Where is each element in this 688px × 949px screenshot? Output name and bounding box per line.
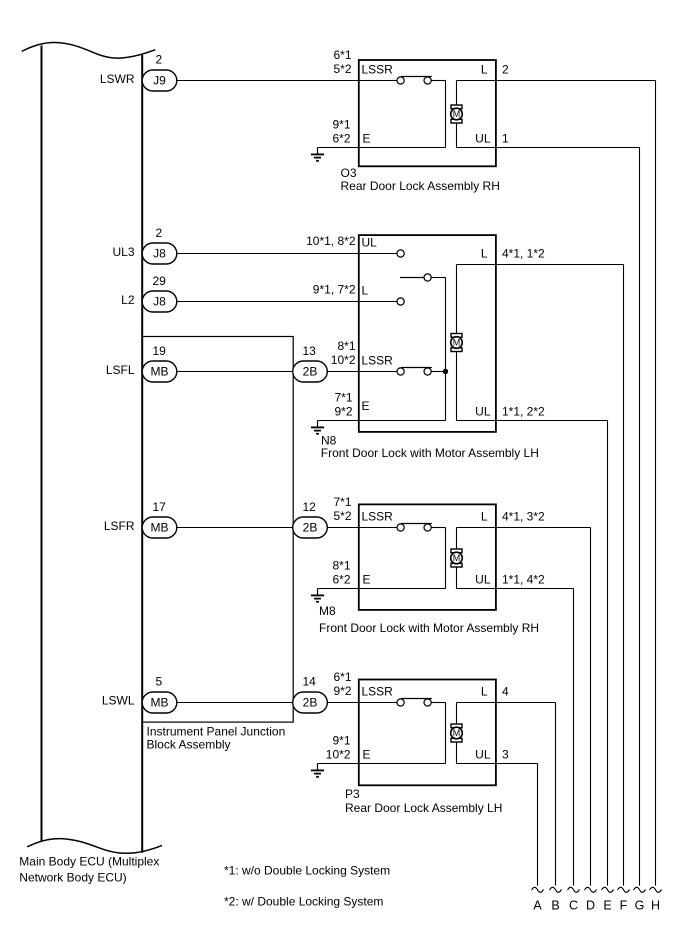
wire contact to junction (N8) — [431, 371, 445, 373]
wire 2B to M8 LSSR — [324, 527, 397, 529]
svg-text:14: 14 — [303, 675, 317, 689]
wire J8 to N8 UL contact — [160, 253, 398, 255]
svg-text:5*2: 5*2 — [333, 62, 351, 76]
break symbol E — [602, 887, 614, 892]
svg-text:12: 12 — [303, 500, 317, 514]
wire L exit to drop (M8) — [457, 527, 591, 529]
wire L exit to drop (N8) — [457, 264, 624, 266]
ground (P3 E) — [311, 764, 324, 777]
switch contact 2 (P3) — [424, 699, 431, 706]
svg-text:M: M — [453, 109, 461, 119]
svg-text:A: A — [533, 899, 542, 913]
svg-text:Main Body ECU (Multiplex: Main Body ECU (Multiplex — [19, 855, 159, 869]
svg-text:Rear Door Lock Assembly RH: Rear Door Lock Assembly RH — [341, 179, 500, 193]
wire vertical drop F — [623, 265, 625, 886]
svg-text:E: E — [603, 899, 611, 913]
connector J9 (LSWR) — [142, 70, 177, 91]
wire LSSR entry (P3) — [353, 702, 397, 704]
svg-text:L: L — [362, 284, 369, 298]
svg-text:9*1, 7*2: 9*1, 7*2 — [313, 282, 356, 296]
svg-text:LSSR: LSSR — [362, 685, 394, 699]
svg-text:Rear Door Lock Assembly LH: Rear Door Lock Assembly LH — [345, 801, 502, 815]
svg-text:J8: J8 — [153, 247, 166, 261]
svg-text:8*1: 8*1 — [337, 339, 355, 353]
svg-text:MB: MB — [151, 521, 169, 535]
ground (M8 E) — [311, 589, 324, 602]
svg-text:L2: L2 — [121, 293, 135, 307]
switch contact middle (N8) — [424, 274, 431, 281]
svg-text:5: 5 — [156, 675, 163, 689]
svg-text:MB: MB — [151, 696, 169, 710]
motor vertical (O3) — [456, 81, 458, 148]
svg-text:E: E — [363, 747, 371, 761]
wire J9 to O3 LSSR pin — [160, 80, 361, 82]
wire vertical drop A — [537, 764, 539, 886]
svg-text:9*2: 9*2 — [333, 684, 351, 698]
svg-text:Front Door Lock with Motor Ass: Front Door Lock with Motor Assembly LH — [321, 446, 539, 460]
svg-text:P3: P3 — [345, 787, 360, 801]
svg-text:LSSR: LSSR — [362, 510, 394, 524]
svg-text:M: M — [453, 338, 461, 348]
svg-text:M8: M8 — [319, 604, 336, 618]
wire E row (O3) — [318, 147, 446, 149]
svg-text:G: G — [635, 899, 645, 913]
wire 2B to N8 LSSR — [324, 371, 397, 373]
svg-text:M: M — [453, 728, 461, 738]
svg-text:10*2: 10*2 — [331, 353, 356, 367]
svg-text:Block Assembly: Block Assembly — [147, 738, 231, 752]
motor vertical (N8) — [456, 265, 458, 421]
wire E row (N8) — [318, 420, 446, 422]
svg-text:29: 29 — [153, 274, 167, 288]
switch blade (M8) — [401, 523, 432, 525]
svg-text:2: 2 — [156, 53, 163, 67]
svg-text:E: E — [363, 572, 371, 586]
switch contact 1 (M8) — [397, 524, 404, 531]
break symbol D — [585, 887, 597, 892]
switch return vertical (M8) — [445, 528, 447, 589]
connector MB (LSWL) — [142, 692, 177, 713]
svg-text:19: 19 — [153, 344, 167, 358]
svg-text:6*2: 6*2 — [332, 573, 350, 587]
svg-text:*2: w/ Double Locking System: *2: w/ Double Locking System — [224, 895, 383, 909]
door lock box P3 — [359, 680, 496, 786]
svg-text:LSSR: LSSR — [362, 354, 394, 368]
svg-text:2B: 2B — [303, 521, 318, 535]
svg-text:9*1: 9*1 — [332, 118, 350, 132]
break symbol C — [568, 887, 580, 892]
wire middle contact to return (N8) — [431, 277, 445, 279]
instrument panel junction block box — [142, 337, 293, 723]
svg-text:5*2: 5*2 — [333, 509, 351, 523]
svg-text:UL: UL — [475, 404, 491, 418]
break symbol F — [618, 887, 630, 892]
wire vertical drop B — [555, 703, 557, 886]
svg-text:Network Body ECU): Network Body ECU) — [19, 870, 126, 884]
switch contact 2 (N8 LSSR) — [424, 368, 431, 375]
wire vertical drop G — [639, 148, 641, 886]
svg-text:4*1, 3*2: 4*1, 3*2 — [502, 510, 545, 524]
switch blade (N8 LSSR) — [401, 367, 432, 369]
switch contact UL (N8) — [397, 250, 404, 257]
switch blade (O3) — [401, 76, 432, 78]
wire contact to return (P3) — [431, 702, 445, 704]
svg-text:6*2: 6*2 — [332, 132, 350, 146]
wire 2B to P3 LSSR — [324, 702, 397, 704]
svg-text:C: C — [569, 899, 578, 913]
svg-text:8*1: 8*1 — [332, 559, 350, 573]
svg-text:10*2: 10*2 — [326, 748, 351, 762]
wire LSSR entry (M8) — [353, 527, 397, 529]
svg-text:UL3: UL3 — [112, 245, 134, 259]
svg-text:UL: UL — [362, 235, 378, 249]
switch contact 1 (O3) — [397, 77, 404, 84]
switch blade (P3) — [401, 698, 432, 700]
svg-text:*1: w/o Double Locking System: *1: w/o Double Locking System — [224, 863, 390, 877]
wire UL exit to drop (P3) — [457, 763, 538, 765]
svg-text:L: L — [481, 63, 488, 77]
connector 2B (LSFR) — [293, 517, 328, 538]
svg-text:17: 17 — [153, 500, 167, 514]
svg-text:L: L — [481, 510, 488, 524]
wire MB to 2B (LSFR) — [160, 527, 296, 529]
wire L exit to drop (O3) — [457, 80, 656, 82]
break symbol H — [650, 887, 662, 892]
motor M (P3) — [451, 724, 463, 742]
wire LSSR entry (O3) — [353, 80, 397, 82]
svg-text:4: 4 — [502, 685, 509, 699]
svg-text:2B: 2B — [303, 696, 318, 710]
wire L exit to drop (P3) — [457, 702, 556, 704]
svg-text:1: 1 — [502, 131, 509, 145]
svg-text:J8: J8 — [153, 295, 166, 309]
connector J8 (L2) — [142, 291, 177, 312]
svg-text:L: L — [481, 685, 488, 699]
break symbol G — [634, 887, 646, 892]
wire MB to 2B (LSWL) — [160, 702, 296, 704]
wire contact to return (M8) — [431, 527, 445, 529]
wire UL exit to drop (N8) — [457, 420, 608, 422]
svg-text:E: E — [363, 131, 371, 145]
switch contact 1 (N8 LSSR) — [397, 368, 404, 375]
switch contact 2 (M8) — [424, 524, 431, 531]
svg-text:9*2: 9*2 — [334, 405, 352, 419]
wire vertical drop C — [573, 589, 575, 886]
svg-text:7*1: 7*1 — [333, 495, 351, 509]
switch blade middle (N8) — [400, 277, 424, 279]
connector 2B (LSFL) — [293, 361, 328, 382]
svg-text:13: 13 — [303, 344, 317, 358]
svg-text:MB: MB — [151, 365, 169, 379]
wire J8 to N8 L contact — [160, 301, 398, 303]
connector MB (LSFL) — [142, 361, 177, 382]
door lock box N8 — [359, 235, 496, 432]
wire vertical drop E — [607, 421, 609, 886]
switch return vertical (P3) — [445, 703, 447, 764]
svg-text:2: 2 — [502, 63, 509, 77]
svg-text:6*1: 6*1 — [333, 670, 351, 684]
switch return vertical (O3) — [445, 81, 447, 148]
svg-text:1*1, 2*2: 1*1, 2*2 — [502, 404, 545, 418]
svg-text:UL: UL — [475, 572, 491, 586]
svg-text:LSWR: LSWR — [100, 72, 135, 86]
break symbol A — [532, 887, 544, 892]
main body ECU right edge — [141, 55, 143, 853]
svg-text:9*1: 9*1 — [332, 734, 350, 748]
svg-text:3: 3 — [502, 747, 509, 761]
svg-text:B: B — [551, 899, 559, 913]
svg-text:LSFR: LSFR — [104, 519, 135, 533]
svg-text:D: D — [586, 899, 595, 913]
connector MB (LSFR) — [142, 517, 177, 538]
svg-text:E: E — [362, 399, 370, 413]
svg-text:F: F — [620, 899, 628, 913]
ground (N8 E) — [311, 421, 324, 434]
wire E row (M8) — [318, 588, 446, 590]
svg-text:L: L — [481, 247, 488, 261]
svg-text:UL: UL — [475, 747, 491, 761]
wire contact to return (O3) — [431, 80, 445, 82]
wire vertical drop H — [655, 81, 657, 886]
junction dot (N8) — [443, 369, 448, 374]
svg-text:J9: J9 — [153, 74, 166, 88]
svg-text:LSSR: LSSR — [362, 63, 394, 77]
ground (O3 E) — [311, 148, 324, 161]
switch contact 2 (O3) — [424, 77, 431, 84]
connector J8 (UL3) — [142, 243, 177, 264]
motor vertical (P3) — [456, 703, 458, 764]
svg-text:7*1: 7*1 — [334, 391, 352, 405]
svg-text:1*1, 4*2: 1*1, 4*2 — [502, 572, 545, 586]
svg-text:10*1, 8*2: 10*1, 8*2 — [306, 234, 356, 248]
door lock box O3 — [359, 60, 496, 166]
break symbol B — [550, 887, 562, 892]
wire MB to 2B (LSFL) — [160, 371, 296, 373]
wire UL exit to drop (O3) — [457, 147, 640, 149]
switch contact L (N8) — [397, 298, 404, 305]
motor M (N8) — [451, 334, 463, 352]
svg-text:H: H — [651, 899, 660, 913]
svg-text:LSWL: LSWL — [102, 694, 135, 708]
switch contact 1 (P3) — [397, 699, 404, 706]
svg-text:2: 2 — [156, 226, 163, 240]
motor vertical (M8) — [456, 528, 458, 589]
connector 2B (LSWL) — [293, 692, 328, 713]
main body ECU top tear line — [22, 42, 156, 58]
svg-text:UL: UL — [475, 131, 491, 145]
svg-text:Instrument Panel Junction: Instrument Panel Junction — [147, 724, 286, 738]
svg-text:2B: 2B — [303, 365, 318, 379]
door lock box M8 — [359, 504, 496, 610]
motor M (O3) — [451, 105, 463, 123]
motor M (M8) — [451, 549, 463, 567]
wire UL exit to drop (M8) — [457, 588, 574, 590]
switch return vertical (N8) — [445, 278, 447, 421]
wire E row (P3) — [318, 763, 446, 765]
svg-text:LSFL: LSFL — [106, 363, 135, 377]
main body ECU left edge — [41, 46, 43, 842]
main body ECU bottom tear line — [27, 839, 162, 854]
svg-text:6*1: 6*1 — [333, 48, 351, 62]
wire vertical drop D — [590, 528, 592, 886]
svg-text:Front Door Lock with Motor Ass: Front Door Lock with Motor Assembly RH — [319, 621, 539, 635]
svg-text:M: M — [453, 553, 461, 563]
svg-text:4*1, 1*2: 4*1, 1*2 — [502, 247, 545, 261]
